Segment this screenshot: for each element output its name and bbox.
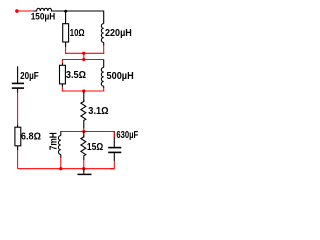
wire 6.8Ω to bottom rail — [17, 150, 19, 168]
svg-text:500µH: 500µH — [107, 71, 134, 82]
inductor 500µH (vertical coil) — [101, 60, 133, 88]
svg-text:15Ω: 15Ω — [87, 142, 103, 153]
wire rail2 jumper — [83, 53, 85, 59]
svg-text:3.1Ω: 3.1Ω — [88, 106, 108, 117]
wire left column red — [17, 93, 19, 125]
terminal dot IN (top-left) — [15, 9, 19, 13]
inductor 7mH (vertical coil) — [48, 132, 61, 159]
wire 3.5Ω bottom red stub — [61, 87, 63, 92]
inductor 150µH (horizontal coil) — [31, 8, 56, 22]
node dot rail2 lower — [82, 58, 85, 61]
capacitor 630µF — [108, 130, 138, 161]
wire mid rail — [61, 131, 115, 134]
wire 3.5Ω top red stub — [61, 60, 63, 63]
wire rail2 upper — [66, 52, 104, 55]
svg-text:6.8Ω: 6.8Ω — [21, 132, 41, 143]
wire 15Ω bottom red stub — [83, 160, 85, 169]
wire rail2 lower — [62, 59, 103, 62]
wire top rail (black, coil to right corner) — [55, 10, 104, 12]
svg-text:220µH: 220µH — [105, 28, 132, 39]
node dot rail2 upper — [82, 52, 85, 55]
svg-text:630µF: 630µF — [116, 130, 138, 141]
svg-text:7mH: 7mH — [48, 132, 59, 150]
wire rail3 — [62, 90, 103, 93]
wire from terminal to 150µH — [17, 10, 34, 12]
wire bottom rail — [18, 168, 115, 170]
resistor 3.1Ω (zigzag) — [81, 91, 109, 129]
wire 630µF red corner top — [110, 132, 114, 138]
svg-text:150µH: 150µH — [31, 12, 56, 23]
inductor 220µH (vertical coil) — [101, 11, 131, 46]
wire 500µH bottom red stub — [103, 88, 105, 92]
wire 630µF red corner bottom — [110, 161, 114, 169]
node dot bottom rail at 15Ω/ground — [82, 167, 85, 170]
resistor 6.8Ω (box) — [15, 124, 41, 150]
resistor 10Ω (box) — [63, 11, 85, 47]
resistor 15Ω (zigzag) — [81, 132, 103, 161]
node dot rail3 — [82, 89, 85, 92]
wire 3.1Ω bottom red stub — [83, 129, 85, 132]
wire 7mH bottom red stub — [60, 158, 62, 169]
wire 10Ω bottom red stub — [65, 47, 67, 54]
svg-text:10Ω: 10Ω — [70, 28, 85, 39]
node dot bottom rail at 7mH — [59, 167, 62, 170]
ground — [78, 169, 92, 175]
resistor 3.5Ω (box) — [60, 63, 87, 87]
wire 220µH bottom red stub — [103, 46, 105, 54]
node junction dot on top rail — [64, 10, 67, 13]
svg-text:3.5Ω: 3.5Ω — [66, 70, 86, 81]
svg-text:20µF: 20µF — [20, 71, 39, 82]
capacitor 20µF — [12, 66, 39, 92]
node dot mid rail — [82, 130, 85, 133]
